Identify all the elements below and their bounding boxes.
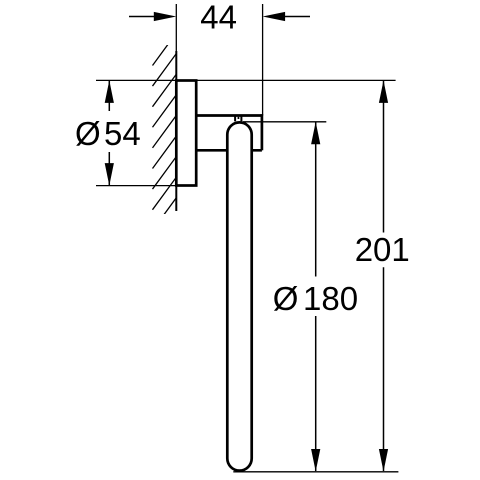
- arrowhead 201 down: [379, 449, 388, 472]
- arrowhead D54 down: [105, 163, 114, 186]
- dimension line D54 (plate diameter): [108, 81, 110, 185]
- wall surface line: [175, 51, 177, 211]
- svg-text:180: 180: [303, 280, 358, 317]
- extension line 44 left (above wall): [175, 4, 177, 51]
- arrowhead D180 up: [311, 122, 320, 145]
- arrowhead 44 left: [154, 12, 177, 21]
- arrowhead D54 up: [105, 80, 114, 103]
- ring (side view, stadium): [227, 122, 251, 470]
- extension line ring top (D180), y=121.8: [243, 121, 326, 123]
- extension line bottom (D180 + 201), y=471.8: [233, 471, 398, 473]
- arrowhead 44 right: [263, 12, 286, 21]
- svg-text:Ø: Ø: [273, 280, 299, 317]
- svg-text:201: 201: [355, 231, 410, 268]
- extension line bottom of plate (D54), y=185.6: [96, 185, 176, 187]
- svg-text:54: 54: [104, 115, 141, 152]
- dimension line 44 (depth), outside segments: [129, 16, 310, 18]
- extension line top (ref for D54 + 201), y=80.4: [96, 79, 396, 81]
- pin detail at ring top: [235, 116, 241, 122]
- dimension line 201 (overall height): [383, 81, 385, 471]
- wall hatching: [153, 33, 177, 251]
- towel ring product: wall plate: [176, 81, 196, 186]
- arm / holder: [196, 114, 262, 150]
- arrowhead 201 up: [379, 80, 388, 103]
- dimension line D180 (ring diameter): [315, 122, 317, 471]
- svg-text:Ø: Ø: [75, 115, 101, 152]
- arrowhead D180 down: [311, 449, 320, 472]
- extension line 44 right: [262, 4, 264, 116]
- svg-text:44: 44: [200, 0, 237, 35]
